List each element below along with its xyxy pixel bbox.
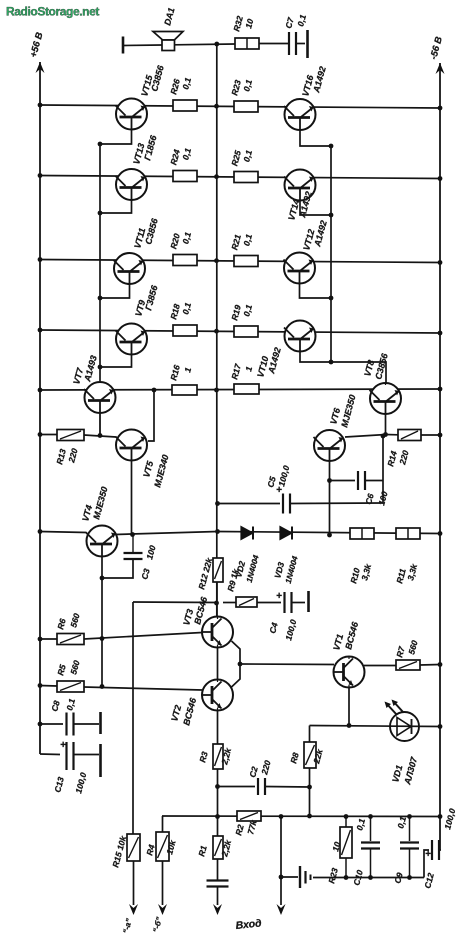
svg-text:+: + xyxy=(60,740,66,751)
svg-text:RadioStorage.net: RadioStorage.net xyxy=(6,5,99,19)
svg-text:+: + xyxy=(276,591,282,602)
svg-text:+: + xyxy=(425,849,431,860)
